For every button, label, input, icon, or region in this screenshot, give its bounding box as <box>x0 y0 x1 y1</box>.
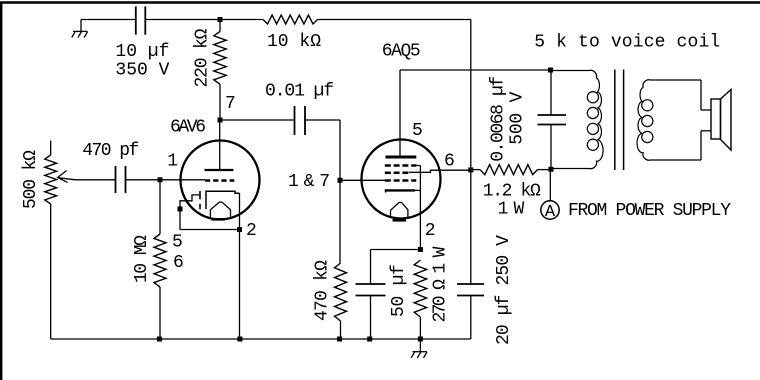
wire B+ node to A terminal <box>549 169 551 201</box>
6AV6 cathode box <box>206 191 240 209</box>
transformer core <box>614 70 616 171</box>
svg-text:350 V: 350 V <box>115 60 169 80</box>
wire C3 to 6AV6 grid <box>126 179 206 181</box>
resistor R 220 kOhm <box>219 20 221 32</box>
node B+ supply junction <box>549 167 554 172</box>
transformer primary top wire <box>551 70 590 72</box>
svg-text:2: 2 <box>246 221 257 241</box>
svg-text:20 µf 250 V: 20 µf 250 V <box>494 235 514 345</box>
svg-text:6: 6 <box>444 152 455 172</box>
node plate/transformer junction <box>548 68 553 73</box>
transformer primary bottom wire <box>551 168 589 170</box>
svg-text:2: 2 <box>425 221 436 241</box>
svg-text:500 V: 500 V <box>508 92 528 145</box>
node bus 470k <box>337 337 342 342</box>
svg-text:0.01 µf: 0.01 µf <box>265 82 334 102</box>
wire ground to C1 <box>81 19 136 21</box>
6AV6 cathode return rectangle <box>179 209 181 230</box>
tube U1 6AV6 envelope <box>181 141 260 220</box>
wire wiper to C3 <box>75 179 115 181</box>
svg-text:6AV6: 6AV6 <box>170 118 206 138</box>
wire top right corner down <box>470 20 472 170</box>
svg-text:10 MΩ: 10 MΩ <box>132 235 152 283</box>
resistor R 10 MOhm (grid leak) <box>159 180 161 234</box>
node bus 6AV6 cathode <box>237 337 242 342</box>
6AQ5 cathode <box>386 189 415 191</box>
6AQ5 screen grid (dashed) <box>385 171 409 174</box>
svg-text:1 & 7: 1 & 7 <box>288 172 330 192</box>
resistor R 1.2 kOhm 1 W <box>471 169 480 171</box>
svg-text:1: 1 <box>498 199 509 219</box>
node bus 50uf <box>367 337 372 342</box>
6AQ5 screen to pin 6 wire <box>409 170 471 172</box>
wire 6AQ5 plate to transformer <box>400 69 551 71</box>
node grid input junction <box>158 177 163 182</box>
node 50uf tap <box>418 247 423 252</box>
6AQ5 control grid (dashed) <box>385 179 417 182</box>
capacitor C2 0.01 uf <box>294 106 296 135</box>
wire pin7 to C2 <box>220 119 295 121</box>
node bus 270ohm/ground <box>418 337 423 342</box>
svg-text:W: W <box>514 199 525 219</box>
wire grid node to 6AQ5 <box>340 179 385 181</box>
node top B+ junction <box>218 17 223 22</box>
svg-text:FROM POWER SUPPLY: FROM POWER SUPPLY <box>568 201 731 221</box>
secondary bottom wire to speaker <box>651 159 702 161</box>
node 6AV6 pin2 <box>237 227 242 232</box>
svg-text:500 kΩ: 500 kΩ <box>21 150 41 209</box>
svg-text:50 µf: 50 µf <box>389 264 409 317</box>
svg-text:10 µf: 10 µf <box>115 42 169 62</box>
node pin7 junction <box>218 118 223 123</box>
resistor R 10 kOhm (plate load feed) <box>263 15 318 24</box>
wire C1 to node B+ <box>145 19 263 21</box>
terminal A circle <box>541 201 559 219</box>
capacitor C4 0.0068 uf 500 V <box>550 70 552 115</box>
svg-text:220 kΩ: 220 kΩ <box>193 28 213 87</box>
ground (bottom bus) <box>419 339 421 352</box>
svg-text:270 Ω 1 W: 270 Ω 1 W <box>431 246 451 322</box>
node bus 10M <box>157 337 162 342</box>
transformer secondary winding <box>637 80 650 160</box>
capacitor C3 470 pf <box>115 166 117 193</box>
tube U2 6AQ5 envelope <box>362 140 441 219</box>
6AV6 control grid (dashed) <box>205 179 234 181</box>
6AQ5 plate <box>386 156 417 159</box>
speaker cone <box>721 90 732 151</box>
6AV6 plate <box>205 169 234 171</box>
capacitor C5 20 uf 250 V <box>470 170 472 284</box>
border frame left line <box>0 2 2 380</box>
ground bus wire <box>51 338 471 340</box>
svg-text:470 pf: 470 pf <box>82 141 139 161</box>
secondary top wire to speaker <box>651 79 702 81</box>
wire 10k to right corner <box>318 19 471 21</box>
svg-text:5: 5 <box>412 121 423 141</box>
potentiometer 500 kOhm <box>50 141 52 156</box>
svg-text:6: 6 <box>173 253 184 273</box>
svg-text:10 kΩ: 10 kΩ <box>267 32 321 52</box>
6AQ5 beam plates (dashed) <box>385 164 417 167</box>
resistor R 270 Ohm 1 W <box>414 260 426 317</box>
svg-text:5 k to voice coil: 5 k to voice coil <box>534 32 720 52</box>
svg-text:0.0068 µf: 0.0068 µf <box>489 76 509 162</box>
transformer primary winding <box>589 70 603 168</box>
capacitor C1 10 uf 350 V <box>135 6 137 34</box>
svg-text:A: A <box>545 203 556 222</box>
ground (input, top left) <box>80 20 82 32</box>
svg-text:5: 5 <box>172 233 183 253</box>
node 6AV6 diode pins 5,6 <box>178 207 183 212</box>
6AV6 diode plates (pins 5,6) <box>199 191 201 199</box>
6AQ5 beam plate to cathode tie <box>416 165 420 167</box>
capacitor C6 50 uf <box>371 249 421 251</box>
potentiometer wiper arrow <box>59 178 76 180</box>
wire C2 to 6AQ5 grid corner <box>305 119 340 121</box>
border frame top line <box>0 1 760 3</box>
node 6AQ5 grid junction <box>338 178 343 183</box>
node screen junction <box>468 167 473 172</box>
svg-text:470 kΩ: 470 kΩ <box>313 260 333 321</box>
svg-text:1: 1 <box>167 152 178 172</box>
svg-text:6AQ5: 6AQ5 <box>382 42 421 62</box>
6AQ5 cathode heater peak <box>391 203 408 218</box>
wire 6AV6 pin2 to ground bus <box>239 230 241 340</box>
svg-text:7: 7 <box>225 94 236 114</box>
svg-text:1.2 kΩ: 1.2 kΩ <box>483 181 541 201</box>
resistor R 470 kOhm <box>339 180 341 263</box>
6AV6 cathode heater peak <box>210 202 230 217</box>
6AV6 heater/diode staircase wire <box>180 195 199 209</box>
speaker driver <box>711 99 721 139</box>
